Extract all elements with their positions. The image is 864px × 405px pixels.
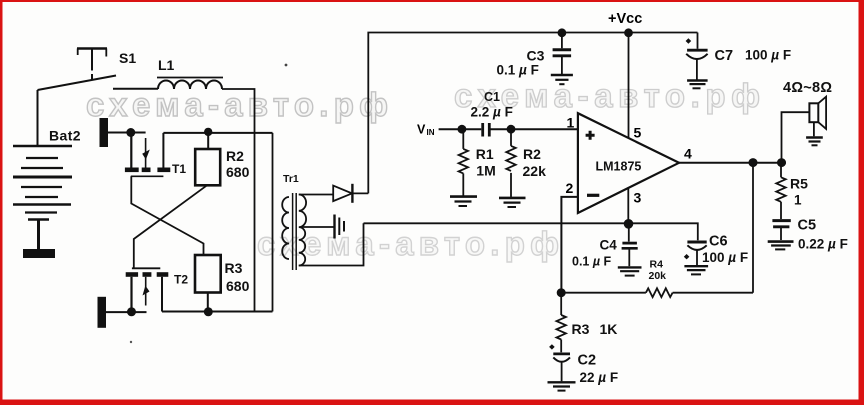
resistor R4 20k (561, 259, 753, 298)
ground (transformer center tap) (335, 215, 345, 239)
svg-text:20k: 20k (649, 270, 667, 282)
wire L1 down right side of oscillator (222, 89, 255, 312)
pin 4 output wire (679, 162, 786, 164)
svg-text:C5: C5 (798, 218, 817, 234)
capacitor C3 0.1uF (497, 33, 572, 78)
svg-text:1K: 1K (600, 321, 618, 337)
svg-text:Bat2: Bat2 (49, 128, 81, 144)
junction dot output/R5 (777, 158, 786, 167)
svg-text:R5: R5 (790, 176, 808, 192)
resistor R2 22k (506, 129, 546, 197)
junction dot T2 emitter rail (127, 307, 136, 316)
wire oscillator top rail (163, 132, 272, 134)
ground (C3) (551, 75, 573, 84)
pin 3 wire (627, 187, 629, 223)
transistor T2 (98, 268, 189, 328)
junction dot output/feedback (749, 158, 758, 167)
diode D1 (333, 184, 368, 203)
junction dot R3 bottom rail (204, 307, 213, 316)
wire diode up to +Vcc rail (368, 33, 697, 194)
svg-text:1: 1 (794, 193, 802, 208)
wire pin 5 (628, 33, 630, 139)
svg-text:C2: C2 (578, 353, 597, 369)
svg-text:C3: C3 (527, 48, 545, 64)
svg-text:1: 1 (567, 115, 575, 131)
wire switch to L1 (113, 88, 158, 90)
svg-text:680: 680 (226, 164, 250, 180)
wire battery to switch (37, 90, 39, 146)
junction dot pin3 rail (624, 219, 634, 229)
svg-text:T1: T1 (172, 162, 186, 176)
resistor R1 1M (459, 129, 496, 195)
svg-text:5: 5 (634, 125, 642, 141)
ground (C4) (618, 267, 642, 275)
resistor R2 680 (195, 133, 249, 185)
svg-text:T2: T2 (174, 273, 188, 287)
wire R2 bottom into cross-coupling (134, 185, 207, 268)
wire oscillator bottom rail (162, 311, 273, 313)
wire secondary top tap to diode (299, 194, 333, 196)
svg-text:C4: C4 (600, 238, 618, 253)
switch S1 (38, 49, 137, 91)
svg-text:L1: L1 (158, 57, 175, 73)
svg-text:+Vcc: +Vcc (608, 11, 642, 27)
svg-text:680: 680 (226, 278, 250, 294)
svg-text:R1: R1 (476, 146, 494, 162)
ground (C5) (768, 242, 794, 250)
svg-text:22k: 22k (523, 163, 547, 179)
svg-text:R3: R3 (225, 260, 243, 276)
svg-text:100 µ F: 100 µ F (745, 48, 791, 63)
speaker LS1 (782, 80, 833, 163)
op-amp U1 LM1875 (578, 113, 679, 213)
wire secondary center tap (302, 226, 335, 228)
svg-text:схема-авто.рф: схема-авто.рф (86, 86, 388, 123)
capacitor C4 0.1uF (572, 224, 638, 269)
transformer Tr1 (282, 173, 306, 270)
svg-text:4: 4 (684, 146, 692, 162)
junction dot rail / R2 (204, 128, 212, 136)
ground (speaker) (806, 138, 823, 146)
svg-text:R4: R4 (650, 259, 664, 271)
svg-text:4Ω~8Ω: 4Ω~8Ω (783, 80, 832, 96)
svg-text:0.22 µ F: 0.22 µ F (798, 237, 848, 252)
battery Bat2 (13, 128, 81, 259)
ground (R1) (450, 197, 477, 206)
inductor L1 (157, 57, 223, 89)
svg-text:1M: 1M (476, 163, 495, 179)
ground (C7) (687, 81, 708, 89)
junction dot C1 / R2 / pin1 (507, 125, 516, 134)
ground (C2) (548, 382, 576, 390)
svg-text:C1: C1 (484, 90, 500, 104)
svg-text:22 µ F: 22 µ F (580, 370, 619, 385)
svg-text:0.1 µ F: 0.1 µ F (572, 255, 612, 269)
wire oscillator rail down to transformer (272, 133, 274, 312)
svg-text:Tr1: Tr1 (283, 173, 299, 185)
wire feedback up to output (752, 163, 754, 293)
ground (C6) (684, 266, 708, 274)
svg-text:схема-авто.рф: схема-авто.рф (257, 225, 559, 262)
svg-text:3: 3 (634, 190, 642, 206)
wire T1 base into cross-coupling (131, 176, 203, 255)
svg-text:V: V (417, 123, 426, 137)
capacitor C2 22uF (549, 344, 618, 385)
junction dot Vcc pin5 (624, 28, 633, 37)
svg-text:IN: IN (427, 128, 435, 137)
wire secondary bottom tap to negative rail (299, 223, 364, 265)
junction dot C3 on rail (558, 28, 567, 37)
resistor R3 1K (557, 293, 618, 353)
svg-text:LM1875: LM1875 (596, 160, 642, 174)
transistor T1 (100, 118, 187, 176)
junction dot input node (458, 125, 467, 134)
junction dot feedback node (557, 288, 566, 297)
capacitor C1 2.2uF (462, 90, 513, 137)
junction dot battery rail / T1 (126, 128, 135, 137)
svg-text:C7: C7 (715, 48, 734, 64)
svg-text:R2: R2 (226, 148, 244, 164)
svg-text:S1: S1 (119, 50, 136, 66)
capacitor C7 100uF (686, 33, 791, 80)
node VIN (417, 123, 462, 138)
svg-text:R3: R3 (572, 321, 590, 337)
svg-text:R2: R2 (523, 146, 541, 162)
svg-text:0.1 µ F: 0.1 µ F (497, 63, 539, 78)
svg-text:100 µ F: 100 µ F (702, 250, 748, 265)
resistor R3 680 (195, 255, 250, 312)
pin 2 wire (561, 197, 578, 293)
resistor R5 1 (776, 163, 808, 219)
negative supply rail (364, 223, 698, 240)
svg-text:C6: C6 (709, 234, 728, 250)
ground (R2) (499, 198, 526, 207)
capacitor C5 0.22uF (772, 218, 847, 252)
wire to pin 1 (511, 128, 578, 130)
svg-text:2.2 µ F: 2.2 µ F (471, 105, 513, 120)
svg-text:2: 2 (566, 180, 574, 196)
capacitor C6 100uF (684, 234, 748, 266)
